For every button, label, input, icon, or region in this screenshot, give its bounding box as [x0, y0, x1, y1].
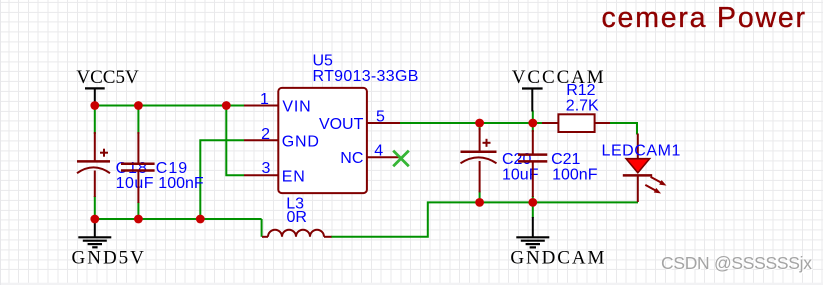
- capacitor C21: [518, 130, 598, 197]
- capacitor C20: [461, 128, 539, 192]
- resistor R12: [542, 82, 610, 132]
- wire C20 top lead: [479, 123, 481, 130]
- ground GND5V: [72, 219, 146, 269]
- wire C19 top lead: [137, 106, 139, 135]
- wire R12 to LED: [610, 123, 637, 135]
- svg-text:3: 3: [262, 160, 271, 177]
- U5 pin 5 VOUT: [319, 109, 400, 134]
- inductor L3: [262, 195, 332, 236]
- wire GNDCAM stem upper: [532, 202, 534, 218]
- svg-text:U5: U5: [313, 52, 334, 69]
- svg-text:LEDCAM1: LEDCAM1: [602, 142, 681, 159]
- wire GND pin route: [200, 140, 244, 219]
- wire C20 bottom lead: [479, 191, 481, 202]
- capacitor C19: [121, 132, 204, 203]
- wire L3 to GNDCAM rail: [331, 202, 638, 236]
- svg-text:5: 5: [376, 109, 385, 126]
- wire VOUT rail: [400, 122, 542, 124]
- wire EN riser: [226, 106, 244, 176]
- svg-text:GND: GND: [282, 133, 320, 150]
- svg-text:cemera Power: cemera Power: [602, 2, 807, 34]
- wire VCCCAM stem lower: [532, 111, 534, 124]
- svg-text:NC: NC: [340, 150, 363, 167]
- svg-text:VOUT: VOUT: [319, 116, 364, 133]
- U5 pin 3 EN: [244, 160, 306, 185]
- U5 value RT9013-33GB: [313, 68, 419, 85]
- svg-text:0R: 0R: [287, 209, 307, 226]
- U5 pin 2 GND: [244, 126, 320, 151]
- U5 pin 1 VIN: [244, 91, 311, 115]
- svg-text:GNDCAM: GNDCAM: [510, 247, 606, 268]
- wire C19 bottom lead: [137, 202, 139, 219]
- junction dots: [90, 101, 537, 223]
- svg-text:10uF: 10uF: [116, 175, 154, 192]
- svg-text:4: 4: [374, 143, 383, 160]
- capacitor C18: [77, 132, 154, 197]
- watermark: [661, 253, 813, 274]
- wire C21 bottom lead: [532, 196, 534, 202]
- svg-text:1: 1: [260, 91, 269, 108]
- svg-text:VCC5V: VCC5V: [76, 67, 139, 88]
- ground GNDCAM: [510, 217, 606, 268]
- wire bottom left rail: [95, 218, 262, 220]
- no-ERC marker X: [393, 151, 409, 167]
- svg-text:C21: C21: [551, 151, 580, 168]
- svg-text:CSDN @SSSSSSjx: CSDN @SSSSSSjx: [661, 253, 812, 273]
- wire C21 top lead: [532, 123, 534, 132]
- LED LEDCAM1: [602, 134, 681, 203]
- power port VCCCAM: [512, 67, 606, 111]
- wire C18 bottom lead: [94, 196, 96, 219]
- svg-text:EN: EN: [282, 168, 306, 185]
- wire C18 top lead: [94, 106, 96, 135]
- svg-text:2.7K: 2.7K: [566, 97, 599, 114]
- svg-text:2: 2: [261, 126, 270, 143]
- svg-text:RT9013-33GB: RT9013-33GB: [313, 68, 419, 85]
- svg-text:VIN: VIN: [282, 98, 311, 115]
- wire top rail VCC5V: [95, 105, 244, 107]
- svg-text:100nF: 100nF: [552, 167, 598, 184]
- title: [602, 2, 807, 34]
- power port VCC5V: [76, 67, 139, 104]
- svg-text:100nF: 100nF: [158, 175, 204, 192]
- wire L3 left jog: [261, 219, 263, 237]
- U5 pin 4 NC: [340, 143, 400, 168]
- U5 designator: [313, 52, 334, 69]
- svg-text:GND5V: GND5V: [72, 248, 146, 269]
- op-amp U5 body: [278, 88, 367, 193]
